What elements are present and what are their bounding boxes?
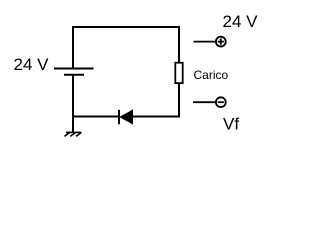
terminal - minus sign — [218, 101, 224, 103]
ground bar — [66, 131, 82, 133]
wire battery - down to bottom node — [72, 76, 74, 117]
battery V1 long plate — [54, 68, 94, 70]
svg-text:Vf: Vf — [223, 115, 239, 134]
terminal - circle — [216, 97, 226, 107]
diode D1 triangle — [120, 110, 133, 124]
svg-text:24 V: 24 V — [223, 12, 259, 31]
wire to + terminal — [194, 41, 216, 43]
battery V1 short plate — [64, 74, 84, 76]
wire ground stub — [72, 117, 74, 133]
wire bottom right (diode anode to load) — [133, 83, 179, 117]
svg-text:Carico: Carico — [194, 68, 229, 82]
ground hatch 2 — [70, 132, 75, 136]
ground hatch 1 — [65, 132, 70, 136]
ground hatch 3 — [76, 132, 81, 136]
svg-text:24 V: 24 V — [14, 55, 50, 74]
diode D1 cathode bar — [118, 110, 120, 124]
wire top (battery + to load) — [73, 27, 179, 68]
terminal + circle — [216, 37, 226, 47]
wire bottom left (node to diode cathode) — [73, 116, 119, 118]
terminal + plus sign — [218, 39, 224, 45]
wire to - terminal — [193, 101, 215, 103]
resistor Carico body — [175, 63, 182, 83]
